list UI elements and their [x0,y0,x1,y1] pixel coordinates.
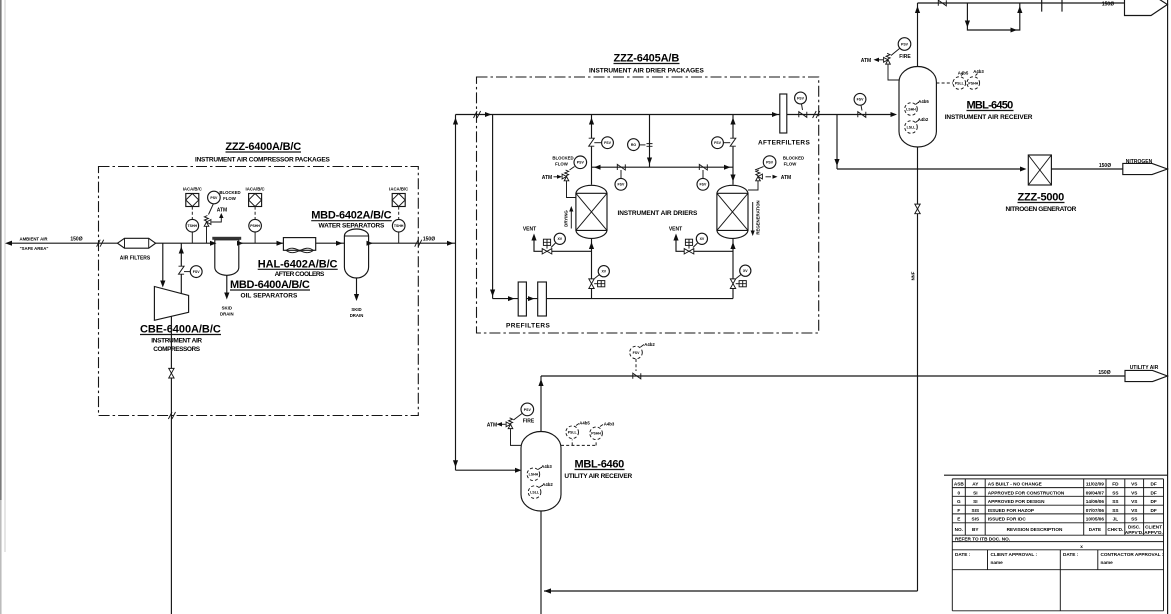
drier A vessel [576,185,607,238]
offpage connector top [1125,0,1168,16]
svg-text:IACA/B/C: IACA/B/C [389,186,408,191]
svg-text:ATM: ATM [487,423,497,429]
after cooler HAL-6402 [283,238,315,251]
instrument LSLL 6450 [905,121,918,134]
svg-text:XV: XV [557,237,562,241]
svg-text:ISSUED FOR HAZOP: ISSUED FOR HAZOP [988,508,1034,513]
node branch to N2 [836,115,838,170]
break drier A riser [589,138,595,146]
actuator vent A [543,239,550,245]
svg-text:BLOCKED: BLOCKED [552,156,573,161]
package box ZZZ-6405 [477,77,819,333]
arrow into separator [210,241,217,246]
svg-text:SS: SS [1112,499,1118,504]
svg-text:XV: XV [743,269,748,273]
svg-text:INSTRUMENT AIR COMPRESSOR PACK: INSTRUMENT AIR COMPRESSOR PACKAGES [195,157,330,164]
vessel MBL-6450 [899,66,936,147]
svg-text:SS: SS [1112,490,1118,495]
svg-text:150Ø: 150Ø [1102,2,1114,8]
relief valve PSV drier B [756,170,763,181]
instrument LSHH 6460 [527,468,540,481]
wire filter to compressor [162,243,164,284]
instrument TSHH 2 stem [398,232,400,243]
offpage connector nitrogen [1123,163,1168,174]
instrument XV vent B [693,243,698,248]
svg-text:A4b5: A4b5 [958,71,969,76]
svg-text:ZZZ-5000: ZZZ-5000 [1018,192,1065,204]
instrument FSV equal right [702,170,704,179]
svg-text:TSHH: TSHH [394,224,404,228]
svg-text:LSHH: LSHH [529,473,539,477]
left scan edge [0,0,2,500]
wire receiver bottom drop [917,147,919,591]
svg-text:PSLL: PSLL [955,81,965,85]
interlock square IACA 1 [186,194,199,207]
svg-text:FLOW: FLOW [784,161,798,166]
svg-text:INSTRUMENT AIR: INSTRUMENT AIR [151,337,202,344]
svg-text:PSV: PSV [210,196,218,200]
wire to PSLL PSHH dashed [936,82,953,84]
svg-text:TSHH: TSHH [188,224,198,228]
air filter F1 [118,238,156,248]
instrument XV vent A [551,243,556,248]
svg-text:FIRE: FIRE [899,54,911,60]
svg-text:VENT: VENT [669,227,682,233]
valve vent A [542,249,552,254]
wire water sep outlet [369,242,456,244]
svg-text:CLIENT APPROVAL :: CLIENT APPROVAL : [991,552,1038,557]
wire separator to cooler [239,242,345,244]
svg-text:NO.: NO. [955,527,963,532]
svg-text:DF: DF [1150,499,1156,504]
svg-text:DISC.: DISC. [1128,525,1141,530]
svg-text:PSV: PSV [577,161,585,165]
arrow on header [485,112,492,117]
instrument PSHH 6450 [967,77,980,90]
svg-text:FSV: FSV [857,98,864,102]
wire drier A bottom [591,239,593,299]
nitrogen generator ZZZ-5000 [1028,155,1051,185]
svg-text:VS: VS [1131,490,1137,495]
instrument LSHH 6450 [905,103,918,116]
svg-text:SIS: SIS [972,517,980,522]
wire compressor drain down [170,316,172,614]
svg-text:150Ø: 150Ø [70,237,82,243]
svg-text:A4b3: A4b3 [604,422,615,427]
vent line drier A [534,236,592,251]
svg-text:11/02/09: 11/02/09 [1086,482,1104,487]
svg-text:FSV: FSV [193,270,200,274]
svg-text:SS: SS [1131,517,1137,522]
valve on drain [169,368,174,378]
wire FSV leader [184,271,190,273]
instrument TSHH 1 stem [191,232,193,243]
wire prefilter run [493,298,733,300]
svg-text:RO: RO [631,143,637,147]
svg-text:PREFILTERS: PREFILTERS [506,322,550,329]
svg-text:BLOCKED: BLOCKED [783,156,804,161]
svg-text:DATE: DATE [1089,527,1101,532]
wire relief inlet to vessel [888,65,900,80]
svg-text:AY: AY [972,482,979,487]
package box ZZZ-6400 [99,167,419,416]
tick symbols cut at top [1042,0,1062,12]
svg-text:WATER SEPARATORS: WATER SEPARATORS [319,222,385,229]
tick box edge crossing [97,240,104,247]
svg-text:150Ø: 150Ø [1098,370,1110,376]
svg-text:NNF: NNF [911,271,916,280]
instrument FSV equal left [620,170,622,179]
break equalization left [617,164,625,170]
instrument LSLL 6460 [528,486,541,499]
svg-text:DF: DF [1150,508,1156,513]
svg-text:ATM: ATM [217,208,227,214]
instrument FSV drier B top [724,142,731,144]
wire drier A top riser [591,115,593,185]
svg-text:DATE :: DATE : [955,552,971,557]
wire TSHH2 to square dashed [398,207,400,220]
svg-text:07/07/06: 07/07/06 [1086,508,1105,513]
svg-text:BY: BY [972,527,979,532]
svg-text:A4b3: A4b3 [541,464,552,469]
svg-text:FSV: FSV [714,141,721,145]
svg-text:ATM: ATM [542,175,552,181]
svg-text:x: x [1080,544,1083,549]
svg-text:VS: VS [1131,482,1137,487]
svg-text:MBD-6400A/B/C: MBD-6400A/B/C [230,279,310,291]
label regeneration w/ arrow [752,202,754,233]
relief valve stem PSV compressor [206,226,208,243]
svg-text:VS: VS [1131,508,1137,513]
svg-text:F: F [957,508,960,513]
svg-text:AMBIENT AIR: AMBIENT AIR [19,237,48,242]
wire PSV vent to ATM [212,216,222,223]
svg-text:APPV'D.: APPV'D. [1125,530,1144,535]
svg-text:BLOCKED: BLOCKED [219,190,240,195]
offpage connector utility [1125,370,1167,381]
wire equalization line [592,166,734,168]
left faint border [4,0,6,552]
instrument XV drier B bottom [736,275,741,279]
afterfilter [780,94,787,133]
valve drier A bottom XV [589,279,594,289]
svg-text:09/04/07: 09/04/07 [1086,490,1105,495]
label drying w/ arrow [570,209,572,229]
arrow out separator [237,241,244,246]
wire receiver top riser [917,3,919,66]
wire drier B top riser [732,115,734,185]
svg-text:INSTRUMENT AIR DRIER PACKAGES: INSTRUMENT AIR DRIER PACKAGES [589,68,704,75]
svg-text:A4b2: A4b2 [918,117,929,122]
wire relief inlet to vessel 6460 [511,429,522,445]
svg-text:LSLL: LSLL [530,491,540,495]
wire PSV A to vessel [567,181,576,198]
svg-text:name: name [991,560,1004,565]
restriction orifice plates [647,144,653,147]
svg-text:PSHH: PSHH [968,81,978,85]
svg-text:CBE-6400A/B/C: CBE-6400A/B/C [140,324,221,336]
svg-text:APPROVED FOR CONSTRUCTION: APPROVED FOR CONSTRUCTION [988,490,1065,495]
break equalization right [699,164,707,170]
svg-text:MBL-6460: MBL-6460 [575,459,625,471]
svg-text:JL: JL [1113,517,1119,522]
svg-text:ATM: ATM [861,58,871,64]
relief valve PSV drier A [562,170,569,181]
svg-text:SS: SS [1112,508,1118,513]
instrument PSHH 6460 [590,427,603,440]
wire utility air line [541,375,1125,377]
svg-text:E: E [957,517,960,522]
instrument PSV fire 6450 [891,49,900,56]
valve vent B [684,249,694,254]
tick outlet box crossing [415,240,422,247]
wire PSV B to vessel [748,181,758,190]
svg-text:PSHH: PSHH [591,432,601,436]
instrument XV drier A bottom [595,275,600,279]
relief valve PSV compressor (outlet right) [204,216,211,227]
svg-text:CHK'D.: CHK'D. [1107,527,1123,532]
svg-text:AS BUILT - NO CHANGE: AS BUILT - NO CHANGE [988,482,1042,487]
svg-text:ISSUED FOR IDC: ISSUED FOR IDC [988,517,1027,522]
svg-text:ASB: ASB [954,482,965,487]
wire main riser x455 [455,115,457,471]
wire top header [918,2,1125,4]
prefilter 1 [518,282,526,316]
svg-text:FD: FD [1112,482,1119,487]
instrument FSV drier A top [594,142,601,144]
svg-text:UTILITY AIR RECEIVER: UTILITY AIR RECEIVER [564,473,632,480]
actuator drier B bottom [739,281,746,287]
svg-text:COMPRESSORS: COMPRESSORS [153,346,200,353]
svg-text:HAL-6402A/B/C: HAL-6402A/B/C [258,258,338,270]
svg-text:FSV: FSV [699,183,706,187]
svg-text:XV: XV [700,237,705,241]
svg-text:DRAIN: DRAIN [350,313,364,318]
svg-text:FSV: FSV [633,351,640,355]
svg-text:SI: SI [973,499,977,504]
instrument PSV compressor bubble [209,204,214,215]
svg-text:APPV'D.: APPV'D. [1144,530,1163,535]
svg-text:SKID: SKID [351,307,361,312]
svg-text:SI: SI [973,490,977,495]
wire 6460 bottom drop [540,511,542,614]
wire N2 feed [837,168,1024,170]
wire bottom return [544,590,918,592]
svg-text:"SAFE AREA": "SAFE AREA" [20,246,49,251]
instrument FSV receiver inlet [854,93,866,105]
wire prefilter drop [492,115,494,299]
revision table text [954,482,1163,550]
wire drier B bottom [732,239,734,299]
break utility line [633,373,641,379]
instrument PSV drier A bubble [570,167,575,171]
svg-text:150Ø: 150Ø [423,237,435,243]
wire TSHH to square dashed [191,207,193,220]
loop seal u-shape [967,3,1019,30]
svg-text:PSLL: PSLL [568,431,578,435]
svg-text:A4b2: A4b2 [542,482,553,487]
svg-text:14/09/06: 14/09/06 [1086,499,1105,504]
svg-text:AFTERFILTERS: AFTERFILTERS [758,140,810,147]
svg-text:FLOW: FLOW [223,196,237,201]
svg-text:XV: XV [601,270,606,274]
svg-text:PSV: PSV [901,42,909,46]
svg-text:10/05/06: 10/05/06 [1086,517,1105,522]
wire 6460 top riser [540,376,542,432]
wire N2 out [1051,168,1122,170]
svg-text:REGENERATION: REGENERATION [756,200,761,234]
svg-text:G: G [957,499,961,504]
svg-text:NITROGEN GENERATOR: NITROGEN GENERATOR [1006,206,1077,213]
drier B vessel [717,185,748,238]
svg-text:name: name [1101,560,1114,565]
wire water sep drain [356,278,358,297]
svg-text:DF: DF [1150,482,1156,487]
right sheet border [1167,0,1169,614]
svg-text:PSV: PSV [766,161,774,165]
vessel MBL-6460 [521,432,561,512]
svg-text:ZZZ-6400A/B/C: ZZZ-6400A/B/C [225,141,301,153]
instrument PSLL 6450 [953,77,966,90]
svg-text:OIL SEPARATORS: OIL SEPARATORS [241,293,298,300]
break after afterfilter [799,112,807,118]
svg-text:IACA/B/C: IACA/B/C [246,186,265,191]
oil separator MBD-6400 [215,240,239,275]
svg-text:REFER TO ITB DOC. NO.: REFER TO ITB DOC. NO. [955,536,1010,541]
arrow into receiver [891,112,898,117]
svg-text:FSV: FSV [797,96,804,100]
vent line drier B [676,236,733,251]
svg-text:0: 0 [957,490,960,495]
svg-text:MBL-6450: MBL-6450 [967,100,1014,112]
instrument TSHH 1 [186,219,199,232]
svg-text:A4b2: A4b2 [644,342,655,347]
svg-text:A4b3: A4b3 [973,69,984,74]
svg-text:VENT: VENT [523,227,536,233]
tick box left crossing [474,111,481,118]
svg-text:MBD-6402A/B/C: MBD-6402A/B/C [311,210,392,222]
wire ambient air inlet [8,242,215,244]
tick box right crossing [813,111,820,118]
wire separator drain [226,275,228,296]
svg-text:IACA/B/C: IACA/B/C [183,186,202,191]
svg-text:VS: VS [1131,499,1137,504]
svg-text:DRYING: DRYING [564,210,569,227]
instrument PSLL 6460 [566,426,579,439]
title block border [944,474,1168,476]
instrument RO [639,144,646,146]
valve drier B bottom XV [730,279,735,289]
svg-text:SKID: SKID [222,306,232,311]
actuator vent B [685,239,692,245]
svg-text:REVISION DESCRIPTION: REVISION DESCRIPTION [1007,527,1063,532]
svg-text:SIS: SIS [972,508,980,513]
prefilter 2 [538,282,547,316]
svg-text:DATE :: DATE : [1063,552,1079,557]
wire MBL-6460 inlet [456,469,520,471]
svg-text:FSV: FSV [604,141,611,145]
svg-text:FSV: FSV [617,183,624,187]
break on discharge [179,266,185,274]
svg-text:FLOW: FLOW [555,161,569,166]
svg-text:A4b5: A4b5 [579,421,590,426]
svg-text:150Ø: 150Ø [1099,163,1111,169]
tick drain box crossing [168,412,175,419]
svg-text:PSV: PSV [524,408,532,412]
instrument PSHH [249,219,262,232]
instrument FSV compressor [190,266,202,278]
svg-text:APPROVED FOR DESIGN: APPROVED FOR DESIGN [988,499,1045,504]
valve receiver bottom [915,204,920,214]
svg-text:PSHH: PSHH [250,224,260,228]
wire drier feed header [456,114,895,116]
compressor CBE-6400 [154,287,188,321]
instrument FSV after afterfilter [795,92,807,104]
arrow out water separator [367,241,374,246]
instrument FSV utility [630,346,643,359]
svg-text:ZZZ-6405A/B: ZZZ-6405A/B [614,53,680,65]
relief valve PSV fire 6450 [884,53,891,64]
interlock square IACA 2 [249,194,262,207]
wire purge drop line [649,115,651,168]
svg-text:CLIENT: CLIENT [1145,525,1162,530]
water separator MBD-6402 [344,229,368,278]
svg-text:LSHH: LSHH [906,107,916,111]
arrow into junction [447,241,454,246]
svg-text:AFTER COOLERS: AFTER COOLERS [275,271,325,278]
wire compressor discharge riser [180,243,182,293]
revision table grid [952,479,1163,611]
svg-text:DF: DF [1150,490,1156,495]
svg-text:DRAIN: DRAIN [220,312,234,317]
svg-text:A4b5: A4b5 [918,99,929,104]
svg-text:ATM: ATM [781,175,791,181]
svg-text:INSTRUMENT AIR DRIERS: INSTRUMENT AIR DRIERS [618,210,698,217]
break top header [938,0,946,6]
instrument PSV fire 6460 [514,414,523,421]
interlock square IACA 3 [392,194,405,207]
relief valve PSV fire 6460 [506,418,513,429]
svg-text:CONTRACTOR APPROVAL :: CONTRACTOR APPROVAL : [1101,552,1164,557]
actuator drier A bottom [598,281,605,287]
arrow into water separator [336,241,343,246]
instrument PSHH stem [254,232,256,243]
instrument TSHH 2 [392,219,405,232]
svg-text:AIR FILTERS: AIR FILTERS [120,256,151,262]
svg-text:INSTRUMENT AIR RECEIVER: INSTRUMENT AIR RECEIVER [945,114,1033,121]
break drier B riser [730,138,736,146]
svg-text:LSLL: LSLL [907,125,917,129]
wire to PSLL PSHH 6460 dashed [561,440,596,446]
instrument PSV drier B bubble [755,167,764,171]
wire PSHH to square dashed [254,207,256,220]
break receiver inlet [858,112,866,118]
svg-text:FIRE: FIRE [523,418,535,424]
